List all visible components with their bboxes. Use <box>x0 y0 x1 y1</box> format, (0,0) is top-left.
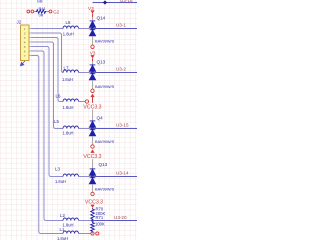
resistor R41 <box>36 10 46 14</box>
grey lead into Q13 <box>92 61 94 65</box>
wire top rail to U3-16 <box>93 2 138 4</box>
junction diamond on top rail <box>103 0 107 4</box>
wire R71 to L1 line <box>92 232 94 234</box>
svg-text:V3: V3 <box>88 6 94 11</box>
svg-text:1.8uH: 1.8uH <box>63 31 74 36</box>
wire L1 to ports <box>79 233 92 235</box>
svg-text:L1: L1 <box>60 227 65 232</box>
svg-text:BAV99W/S: BAV99W/S <box>95 84 115 89</box>
svg-text:Q14: Q14 <box>97 16 106 21</box>
inductor L6 <box>63 99 79 101</box>
svg-text:1.8uH: 1.8uH <box>62 77 73 82</box>
svg-text:7: 7 <box>24 54 26 58</box>
wire tap to U3-2 <box>93 72 138 74</box>
wire L7 to diode tap <box>79 72 93 74</box>
svg-text:L2: L2 <box>60 213 65 218</box>
wire tap to U3-1 <box>93 28 138 30</box>
pin 3 stub <box>29 37 32 39</box>
svg-text:L5: L5 <box>54 119 59 124</box>
svg-text:L6: L6 <box>56 93 61 98</box>
svg-text:0R: 0R <box>39 13 44 17</box>
connector J2 body <box>21 25 30 61</box>
junction dot at Q14 center tap <box>91 27 94 30</box>
svg-text:GB: GB <box>37 0 43 3</box>
grey lead into second Q13 <box>92 159 94 169</box>
wire pin2 route <box>32 33 64 73</box>
grey lead below Q13 <box>92 184 94 192</box>
wire tap to U3-14 <box>93 176 138 178</box>
net port at end of L1 line <box>96 232 99 235</box>
svg-text:Q13: Q13 <box>97 60 106 65</box>
wire pin5 route <box>32 47 64 177</box>
dual diode Q13 (BAV99W/S) <box>90 169 96 184</box>
net port on L1 line <box>91 232 94 235</box>
svg-text:6: 6 <box>24 49 26 53</box>
wire pin1 to L8 <box>32 28 64 30</box>
wire L5 to diode tap <box>79 128 93 130</box>
dual diode Q13 (BAV99W/S) <box>90 65 96 80</box>
wire from ports to R41 <box>34 11 36 13</box>
svg-text:1.8uH: 1.8uH <box>63 130 74 135</box>
inductor L2 <box>63 218 79 220</box>
grey lead below Q14 <box>92 36 94 45</box>
grey lead into Q4 <box>92 110 94 121</box>
wire L8 to diode tap <box>79 28 93 30</box>
dual diode Q14 (BAV99W/S) <box>90 21 96 36</box>
svg-text:J2: J2 <box>17 19 22 24</box>
pin 1 stub <box>29 28 32 30</box>
net port below Q4 <box>91 145 94 148</box>
wire tap to U3-20 <box>93 220 138 222</box>
svg-text:R41: R41 <box>39 6 47 11</box>
svg-text:5: 5 <box>24 45 26 49</box>
svg-text:G2: G2 <box>53 10 59 15</box>
pin 2 stub <box>29 32 32 34</box>
svg-text:BAV99W/S: BAV99W/S <box>95 39 115 44</box>
svg-text:3: 3 <box>24 36 26 40</box>
svg-text:BAV99W/S: BAV99W/S <box>95 139 115 144</box>
inductor L8 <box>63 26 79 28</box>
net port (second) on R41 chain <box>31 10 34 13</box>
svg-text:1.8uH: 1.8uH <box>55 179 66 184</box>
pin 7 stub <box>29 55 32 57</box>
wire L2 to junction <box>79 220 93 222</box>
net port (left pair) on R41 chain <box>27 10 30 13</box>
inductor L1 <box>63 231 79 234</box>
net port below Q14 <box>91 45 94 48</box>
pin 4 stub <box>29 41 32 43</box>
resistor R71 <box>91 222 95 232</box>
svg-text:Q13: Q13 <box>99 162 108 167</box>
inductor L7 <box>63 70 79 73</box>
junction dot at Q4 center tap <box>91 127 94 130</box>
svg-text:U3-14: U3-14 <box>116 171 129 176</box>
grey lead below Q4 <box>92 136 94 145</box>
svg-text:L7: L7 <box>64 65 69 70</box>
grey lead into Q14 <box>92 17 94 20</box>
net flag VCC3.3 (above Q4) <box>90 94 94 98</box>
svg-text:2: 2 <box>24 31 26 35</box>
junction dot at Q13 center tap <box>91 175 94 178</box>
svg-text:V3: V3 <box>90 50 96 55</box>
svg-text:1: 1 <box>24 27 26 31</box>
wire pin7 route <box>32 56 64 234</box>
net port at end of L6 line <box>85 100 88 103</box>
svg-text:100K: 100K <box>95 221 105 226</box>
resistor R70 <box>91 209 95 220</box>
dual diode Q4 (BAV99W/S) <box>90 121 96 136</box>
svg-text:1.8uH: 1.8uH <box>57 236 68 240</box>
junction dot at Q13 center tap <box>91 71 94 74</box>
ground arrow below connector <box>21 61 25 66</box>
wire from R41 to right port <box>46 11 49 13</box>
net port below Q13 <box>91 192 94 195</box>
svg-text:1.8uH: 1.8uH <box>63 105 74 110</box>
svg-text:Q4: Q4 <box>97 116 104 121</box>
svg-text:L3: L3 <box>55 167 60 172</box>
svg-text:U3-2: U3-2 <box>116 67 126 72</box>
svg-text:4: 4 <box>24 40 26 44</box>
junction dot at R70/R71 tap <box>91 219 94 222</box>
net port right of R41 <box>49 10 52 13</box>
svg-text:U3-15: U3-15 <box>116 123 129 128</box>
net flag VCC3.3 (above Q13 second) <box>90 149 94 153</box>
net port below Q13 <box>91 89 94 92</box>
grey lead below Q13 <box>92 80 94 89</box>
wire L3 to diode tap <box>79 176 93 178</box>
wire L6 to net port <box>79 101 86 103</box>
pin 5 stub <box>29 46 32 48</box>
svg-text:R71: R71 <box>96 215 104 220</box>
wire pin4 route <box>32 42 64 129</box>
svg-text:L8: L8 <box>66 20 71 25</box>
wire pin6 route <box>32 51 64 221</box>
svg-text:BAV99W/S: BAV99W/S <box>95 187 115 192</box>
svg-text:U3-20: U3-20 <box>114 215 127 220</box>
pin 6 stub <box>29 50 32 52</box>
svg-text:U3-1: U3-1 <box>116 23 126 28</box>
inductor L3 <box>63 174 79 177</box>
wire pin3 route <box>32 38 64 102</box>
svg-text:U3-16: U3-16 <box>120 0 133 3</box>
inductor L5 <box>63 126 79 129</box>
wire tap to U3-15 <box>93 128 138 130</box>
